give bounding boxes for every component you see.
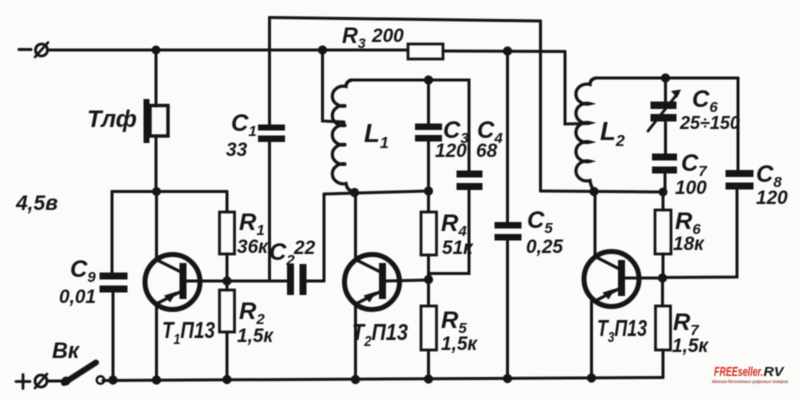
svg-text:120: 120 bbox=[756, 188, 788, 209]
wire L1 tank bottom bbox=[324, 191, 429, 194]
svg-text:0,01: 0,01 bbox=[59, 287, 96, 308]
wire bypass top line bbox=[270, 18, 541, 192]
wire feedback to T3 collector line bbox=[541, 191, 664, 192]
svg-text:Тлф: Тлф bbox=[87, 106, 137, 133]
node T2 emitter rail junction bbox=[351, 375, 360, 384]
resistor R4 bbox=[421, 191, 437, 280]
svg-text:25÷150: 25÷150 bbox=[679, 113, 740, 133]
headphone Tlf bbox=[144, 50, 169, 192]
capacitor C4 bbox=[429, 80, 483, 278]
transistor T2 bbox=[345, 193, 429, 380]
inductor L1 bbox=[323, 50, 353, 191]
resistor R1 bbox=[220, 192, 235, 282]
capacitor C8 bbox=[663, 78, 754, 278]
svg-text:200: 200 bbox=[371, 26, 404, 47]
svg-text:68: 68 bbox=[476, 141, 498, 162]
node R5 rail junction bbox=[424, 374, 433, 383]
wire L1 tank top bbox=[350, 79, 467, 82]
node T3 emitter rail junction bbox=[587, 373, 596, 382]
node C3 top junction bbox=[424, 75, 433, 84]
node C3 bottom junction bbox=[424, 186, 433, 195]
wire top supply rail bbox=[48, 50, 565, 52]
svg-text:51к: 51к bbox=[442, 238, 474, 259]
node rail-L1 tap junction bbox=[318, 45, 327, 54]
node C5 rail junction bbox=[503, 374, 512, 383]
svg-text:1,5к: 1,5к bbox=[672, 336, 709, 357]
svg-text:36к: 36к bbox=[237, 237, 269, 258]
node C6 top junction bbox=[661, 73, 670, 82]
svg-text:4,5в: 4,5в bbox=[15, 192, 58, 215]
wire bottom ground rail bbox=[103, 378, 663, 381]
resistor R2 bbox=[220, 281, 235, 380]
node L1 bottom junction bbox=[350, 188, 359, 197]
svg-text:33: 33 bbox=[226, 140, 248, 161]
capacitor C9 bbox=[100, 273, 128, 381]
node T1 base junction bbox=[222, 276, 231, 285]
svg-text:Вк: Вк bbox=[52, 338, 81, 363]
node C9 rail junction bbox=[108, 375, 117, 384]
resistor R7 bbox=[656, 278, 671, 378]
svg-text:FREEseller.: FREEseller. bbox=[714, 364, 763, 379]
node R2 rail junction bbox=[222, 375, 231, 384]
transistor T3 bbox=[584, 192, 663, 379]
node T1 emitter rail junction bbox=[152, 375, 161, 384]
node C7 bottom junction bbox=[659, 188, 668, 197]
svg-text:22: 22 bbox=[293, 238, 316, 259]
capacitor C2 bbox=[287, 194, 324, 295]
node bias-collector junction bbox=[152, 187, 161, 196]
node rail-Tlf junction bbox=[152, 46, 161, 55]
capacitor C1 bbox=[258, 18, 285, 282]
svg-text:RV: RV bbox=[764, 364, 785, 379]
resistor R5 bbox=[421, 280, 437, 379]
svg-text:120: 120 bbox=[435, 141, 467, 162]
resistor R6 bbox=[655, 192, 671, 278]
svg-text:1,5к: 1,5к bbox=[441, 334, 478, 355]
trimmer capacitor C6 bbox=[648, 78, 681, 154]
inductor L2 bbox=[565, 52, 596, 193]
wire T1 bias line bbox=[112, 192, 227, 274]
terminal minus top-left bbox=[19, 43, 48, 58]
svg-text:1,5к: 1,5к bbox=[237, 326, 274, 347]
svg-text:0,25: 0,25 bbox=[526, 237, 563, 258]
resistor R3 bbox=[408, 44, 443, 59]
capacitor C3 bbox=[415, 80, 442, 191]
switch Vk bbox=[48, 363, 105, 386]
node T2 base junction bbox=[424, 275, 433, 284]
node T3 base junction bbox=[658, 273, 667, 282]
svg-text:100: 100 bbox=[675, 178, 707, 199]
node rail-C5 junction bbox=[503, 46, 512, 55]
capacitor C5 bbox=[495, 51, 522, 379]
svg-text:Магазин бесплатных цифровых то: Магазин бесплатных цифровых товаров bbox=[712, 378, 788, 384]
capacitor C7 bbox=[652, 154, 677, 193]
transistor T1 bbox=[145, 192, 287, 380]
wire L2 tank top bbox=[596, 77, 738, 80]
terminal plus bottom-left bbox=[16, 374, 47, 389]
node L2 bottom junction bbox=[589, 187, 598, 196]
svg-text:18к: 18к bbox=[673, 234, 705, 255]
